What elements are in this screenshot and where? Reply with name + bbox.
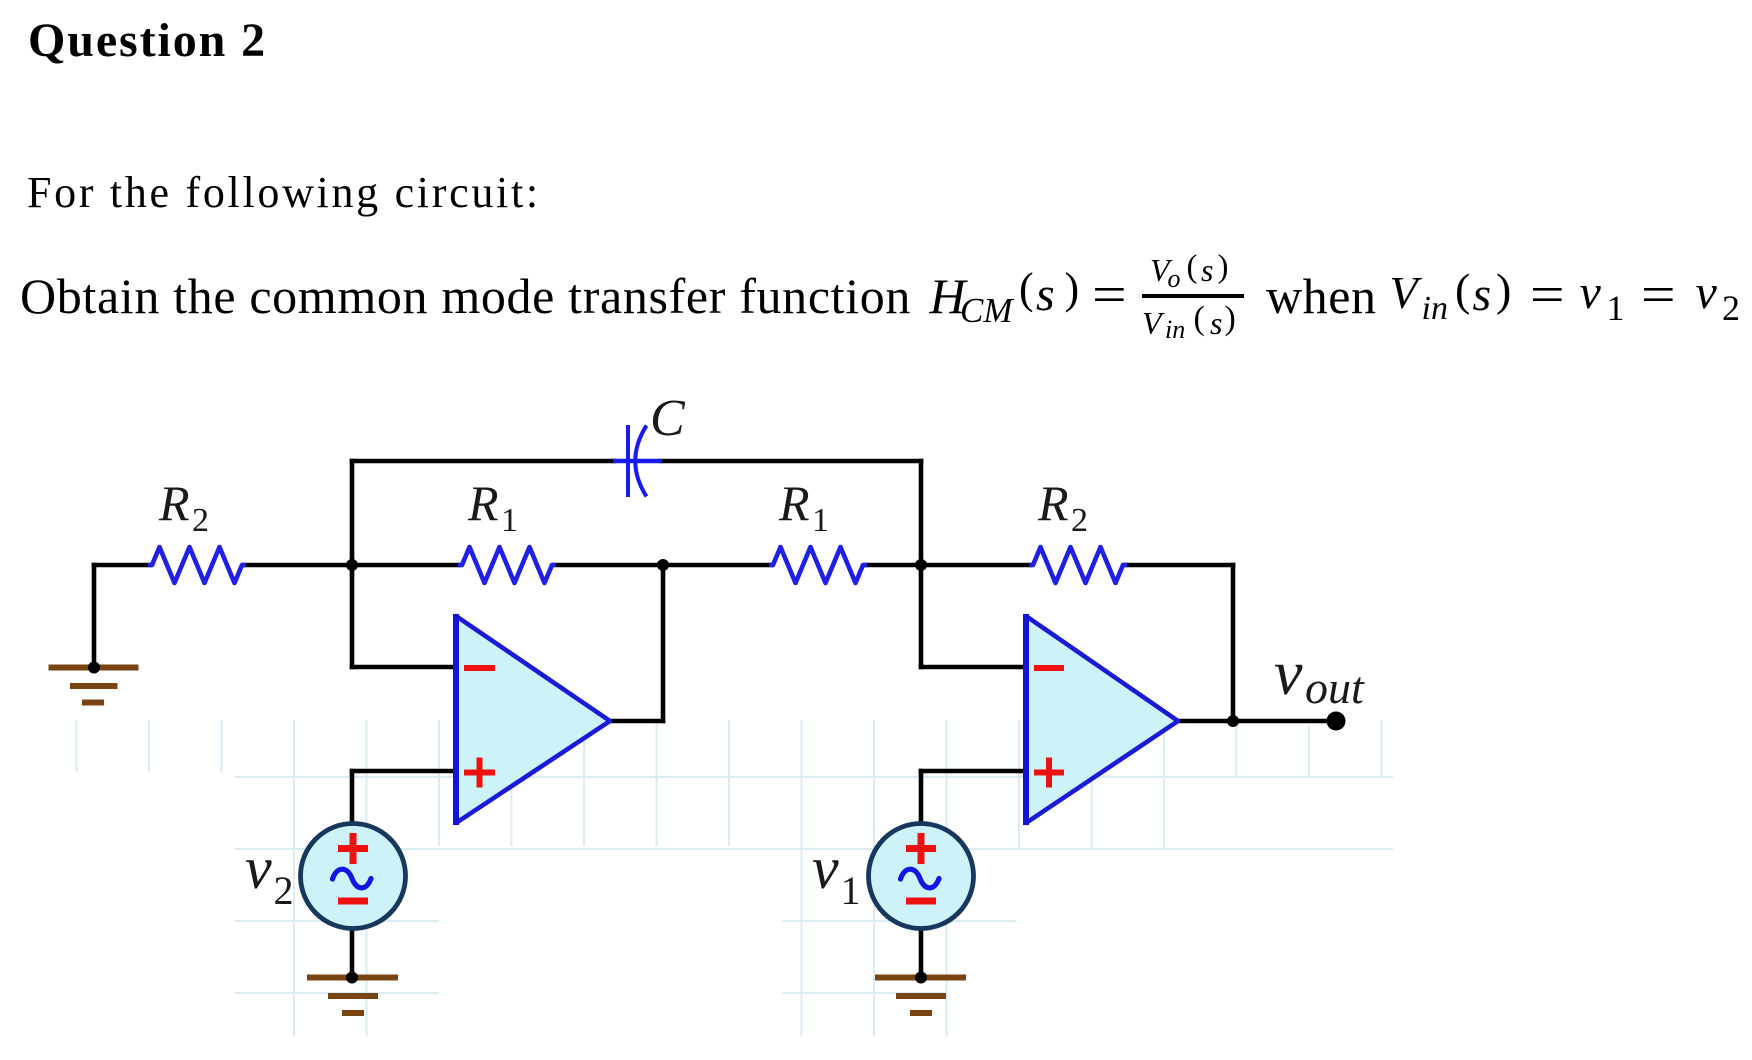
- wires (black): [94, 461, 1336, 977]
- svg-text:v: v: [1274, 637, 1303, 708]
- wire: right feedback drop to output node: [1231, 565, 1236, 721]
- source v1: [869, 824, 974, 929]
- ground (left, node at R2): [49, 668, 139, 703]
- resistor R2 right: [1029, 547, 1127, 583]
- wire: op-amp U2 non-inverting input: [921, 769, 1028, 774]
- svg-text:out: out: [1305, 662, 1365, 713]
- wire: op-amp U1 output up to node B: [661, 565, 666, 721]
- svg-text:C: C: [650, 390, 686, 447]
- svg-text:v: v: [245, 835, 272, 901]
- junction at left ground: [88, 662, 100, 674]
- source v1 polarity marks: [906, 833, 936, 901]
- line "For the following circuit:": [27, 171, 541, 215]
- wire: op-amp U1 non-inverting input: [352, 769, 458, 774]
- wire: top feedback, left segment to capacitor: [352, 459, 614, 464]
- when Vin(s) = v1 = v2: [1266, 271, 1377, 321]
- junction node B: [657, 559, 669, 571]
- wire: main horizontal net, left ground lead to R2: [94, 563, 150, 568]
- wire: source v2 to ground: [350, 925, 355, 977]
- wire: R2 to R1 (through node A): [244, 563, 459, 568]
- svg-text:R: R: [467, 475, 499, 531]
- svg-text:R: R: [158, 475, 190, 531]
- wire: R2 right to output corner: [1125, 563, 1233, 568]
- line 3: Obtain the common mode transfer function H_CM(s) = Vo(s)/Vin(s) when Vin(s)=v1=v2: [0, 0, 1752, 1]
- wire: top feedback, capacitor to right corner: [661, 459, 921, 464]
- background grid: [77, 720, 1394, 1036]
- op-amp U2: [1026, 616, 1178, 823]
- ground (under source v2): [307, 978, 398, 1014]
- svg-text:1: 1: [812, 502, 829, 539]
- junction at output node: [1227, 715, 1239, 727]
- ground (under source v1): [875, 978, 966, 1014]
- svg-text:R: R: [1037, 475, 1069, 531]
- svg-text:1: 1: [841, 868, 861, 913]
- source v2 polarity marks: [338, 833, 368, 901]
- op-amp U2 minus pin label: [1034, 665, 1064, 671]
- title "Question 2": [28, 17, 267, 65]
- op-amp U1: [456, 616, 610, 823]
- svg-text:2: 2: [192, 502, 209, 539]
- junction at v2 ground: [346, 972, 358, 984]
- op-amp U1 plus pin label: [464, 758, 495, 788]
- svg-text:R: R: [778, 475, 810, 531]
- wire: vertical at node C: [919, 461, 924, 667]
- wire: vertical at node A: [350, 461, 355, 667]
- output terminal dot: [1327, 712, 1346, 731]
- wire: R1 to R2 right (through node C): [866, 563, 1030, 568]
- capacitor C: [613, 425, 662, 497]
- resistor R1 left: [458, 547, 556, 583]
- wire: op-amp U2 inverting input: [921, 665, 1028, 670]
- resistor R1 right: [769, 547, 867, 583]
- fraction Vo(s)/Vin(s): [1150, 254, 1170, 286]
- junction node A: [346, 559, 358, 571]
- sine in v2: [333, 869, 372, 888]
- svg-text:1: 1: [501, 502, 518, 539]
- junction node C: [915, 559, 927, 571]
- op-amp U1 minus pin label: [464, 665, 495, 671]
- op-amp U2 plus pin label: [1034, 758, 1064, 788]
- resistor R2 left: [148, 547, 246, 583]
- svg-text:2: 2: [274, 868, 294, 913]
- wire: source v1 to ground: [919, 925, 924, 977]
- wire: left ground drop: [92, 565, 97, 666]
- junction at v1 ground: [915, 972, 927, 984]
- sine in v1: [901, 869, 940, 888]
- svg-text:v: v: [812, 835, 839, 901]
- wire: R1 to R1 (through node B): [555, 563, 771, 568]
- wire: op-amp U2 output to terminal: [1177, 719, 1336, 724]
- svg-text:2: 2: [1071, 502, 1088, 539]
- source v2: [301, 824, 406, 929]
- wire: op-amp U1 inverting input: [352, 665, 458, 670]
